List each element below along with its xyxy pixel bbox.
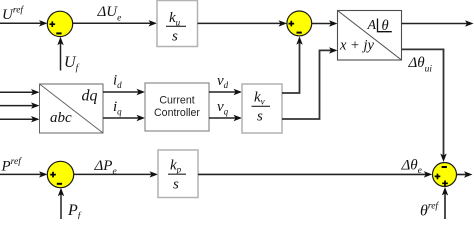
svg-text:A: A	[367, 18, 377, 33]
block abc-to-dq transform	[40, 84, 104, 133]
summing junction S1 (voltage)	[47, 11, 72, 36]
svg-text:abc: abc	[50, 110, 72, 126]
sign + of S3	[50, 172, 56, 178]
wire kp/s to S4	[198, 173, 426, 175]
wire dUe	[72, 22, 151, 24]
sign - of S4 top	[442, 166, 447, 168]
sign + of S4 bottom	[442, 181, 448, 187]
wire A-box lower output to down-feedback	[402, 49, 444, 156]
wire A-box top output	[402, 23, 469, 25]
wire S4 output	[457, 174, 468, 176]
sign + of S2	[289, 21, 295, 27]
block current controller	[145, 83, 209, 131]
wire Pf feedback	[60, 193, 62, 219]
wire Uf feedback	[60, 42, 62, 71]
svg-text:s: s	[173, 176, 179, 192]
svg-text:s: s	[257, 109, 263, 125]
wire Uref input	[0, 22, 41, 24]
wire dPe	[73, 173, 152, 175]
svg-text:θ: θ	[382, 18, 389, 34]
block kv/s integrator	[242, 84, 282, 133]
svg-text:x + jy: x + jy	[339, 37, 374, 53]
wire abc input a	[0, 91, 34, 93]
block ku/s integrator	[157, 1, 198, 47]
wire ku/s to S2	[198, 22, 282, 24]
summing junction S4 (angle)	[433, 163, 457, 187]
wire kv/s top output up to S2	[282, 42, 300, 93]
wire kv/s lower output to A-box x+jy input	[282, 50, 332, 119]
wire Pref input	[0, 173, 41, 175]
arrowhead into summing junction 1	[39, 20, 48, 26]
block A-angle rect-to-polar converter	[338, 11, 402, 61]
wire S2 to A-box	[312, 23, 332, 25]
svg-text:Current: Current	[159, 94, 194, 106]
wire iq	[103, 117, 139, 119]
sign + of S4 left	[435, 174, 441, 180]
wire abc input c	[0, 118, 34, 120]
sign - of S3	[57, 183, 62, 185]
svg-text:Controller: Controller	[154, 107, 200, 119]
sign - of S1	[56, 32, 61, 34]
wire theta-ref input	[444, 193, 446, 220]
summing junction S3 (power)	[47, 161, 73, 187]
wire abc input b	[0, 105, 34, 107]
wire id	[103, 91, 139, 93]
sign + of S1	[50, 21, 56, 27]
wire vd	[209, 91, 236, 93]
summing junction S2	[287, 11, 312, 36]
svg-text:dq: dq	[82, 88, 98, 105]
sign - of S2	[297, 32, 302, 34]
block kp/s integrator	[158, 150, 198, 198]
wire vq	[209, 117, 236, 119]
svg-text:s: s	[172, 29, 178, 45]
